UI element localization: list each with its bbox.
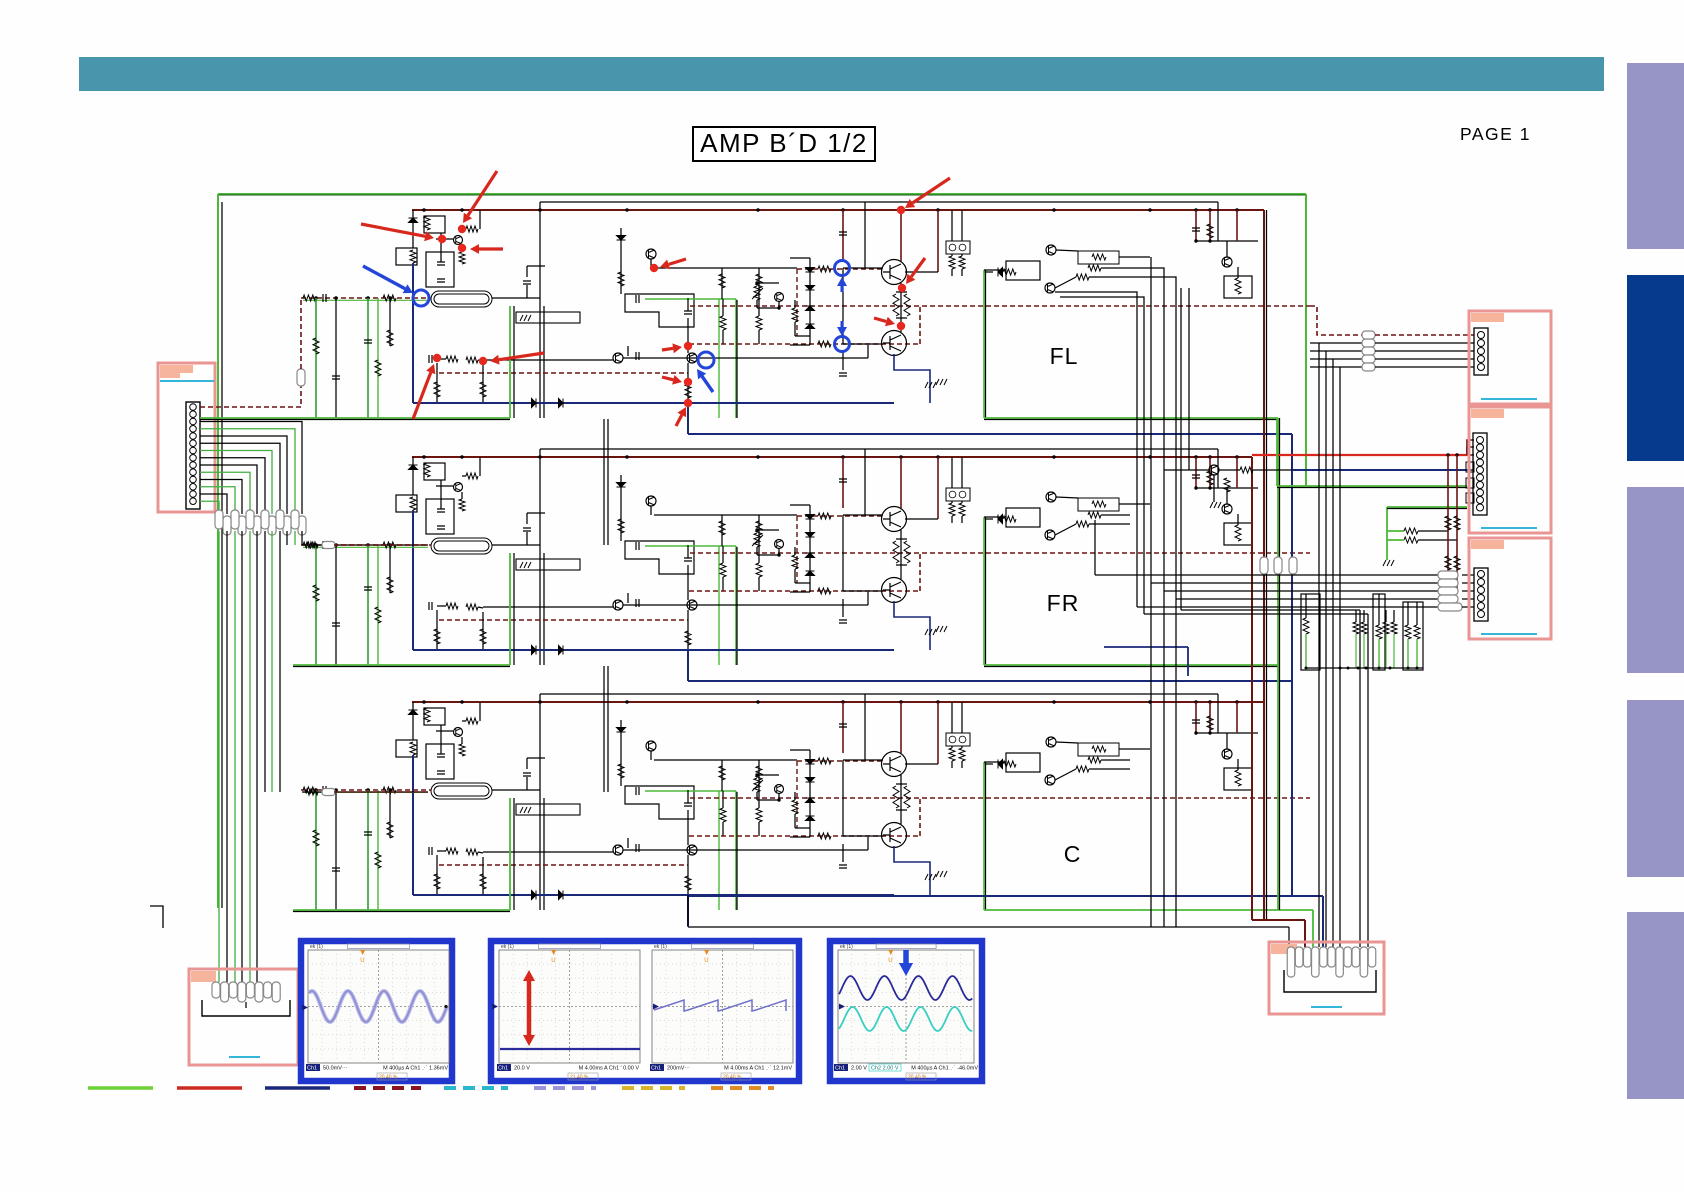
- shunt resistors mid: [1353, 622, 1359, 634]
- CN7 pin bead 4: [238, 982, 246, 1002]
- inter-channel vertical FL-FR: [603, 419, 605, 545]
- CN3 pin 7: [1477, 482, 1484, 489]
- C green right: [984, 909, 1313, 911]
- svg-text:M 4.00ms A Ch1 ′ 0.00 V: M 4.00ms A Ch1 ′ 0.00 V: [579, 1066, 640, 1072]
- CN3 pin 6: [1477, 474, 1484, 481]
- legend orange dashed wire: [711, 1086, 774, 1090]
- svg-text:M 400µs A Ch1 ⋰ -46.0mV: M 400µs A Ch1 ⋰ -46.0mV: [911, 1066, 978, 1072]
- bead navy: [1289, 557, 1297, 574]
- CN7 bracket: [202, 1000, 290, 1016]
- legend mustard dashed wire: [622, 1086, 685, 1090]
- CN7 pin bead 8: [272, 982, 280, 1002]
- CN1 pin10 wire: [200, 472, 250, 514]
- scope4 ch1 sine: [839, 976, 972, 1000]
- wire maroon bottom: [1252, 919, 1305, 921]
- wire maroon main vertical: [1263, 210, 1265, 920]
- CN2 pin strip: [1474, 328, 1488, 375]
- connector CN8 box bottom-right (pink): [1269, 942, 1384, 1014]
- CN1 pin6 wire: [200, 443, 280, 514]
- svg-text:20.40 %: 20.40 %: [908, 1075, 927, 1081]
- scope3 trigger marker: [653, 1004, 659, 1010]
- CN7 header fill: [191, 971, 216, 982]
- ferrite bead pin3: [298, 516, 306, 535]
- wire green border left: [217, 194, 219, 908]
- bundle verticals extra: [1359, 610, 1361, 947]
- scope4 screen grid: [838, 950, 974, 1063]
- dashed to CN2: [1310, 306, 1362, 335]
- bead maroon: [1260, 557, 1268, 574]
- CN3 pin strip: [1473, 433, 1487, 515]
- shunt box 1: [1301, 594, 1320, 670]
- scope1 readout: [306, 1064, 320, 1071]
- sidebar tab 3: [1627, 487, 1684, 673]
- ferrite bead pin5: [283, 516, 291, 535]
- C bus tail: [1240, 701, 1264, 703]
- CN2 pin 4: [1478, 356, 1485, 363]
- note blue circle 4: [835, 337, 850, 352]
- bead CN4 4: [1438, 595, 1458, 603]
- note red arrow 8: [662, 348, 673, 350]
- CN7 pin bead 6: [255, 982, 263, 1002]
- CN1 pin2 green wire: [200, 417, 293, 419]
- CN3 pin 3: [1477, 452, 1484, 459]
- shunt box 2: [1373, 594, 1385, 670]
- note red arrow 7: [874, 318, 886, 322]
- note red arrow 2: [361, 224, 425, 236]
- svg-text:FL: FL: [1050, 343, 1079, 369]
- svg-text:50.0mV⋯: 50.0mV⋯: [323, 1066, 348, 1072]
- ferrite bead pin12: [231, 510, 239, 529]
- svg-text:M 400µs A Ch1 ⋰ 1.36mV: M 400µs A Ch1 ⋰ 1.36mV: [383, 1066, 448, 1072]
- svg-text:U: U: [551, 958, 555, 964]
- svg-text:ek (1): ek (1): [501, 944, 514, 950]
- CN4 pin 6: [1478, 611, 1485, 618]
- sidebar tab 4: [1627, 700, 1684, 877]
- maroon drop resistors: [1447, 455, 1449, 583]
- ferrite bead pin13: [223, 516, 231, 535]
- note red arrow 4: [669, 259, 686, 264]
- CN8 cyan mark: [1311, 1006, 1342, 1008]
- CN8 pin bead 6: [1328, 947, 1336, 967]
- CN4 pin 2: [1478, 579, 1485, 586]
- CN8 header fill: [1271, 944, 1297, 954]
- wire navy to CN3: [1292, 469, 1467, 471]
- svg-text:U: U: [888, 958, 892, 964]
- note blue arrow down: [841, 321, 844, 327]
- bead CN4 3: [1438, 587, 1458, 595]
- CN1 pin 9: [190, 462, 197, 469]
- svg-text:FR: FR: [1047, 590, 1080, 616]
- channel C circuit: [301, 694, 1310, 926]
- CN8 pin bead 11: [1368, 947, 1376, 967]
- bundle vertical 1: [1150, 257, 1152, 927]
- note red arrow 3: [479, 247, 503, 250]
- CN7 pin bead 3: [229, 982, 237, 998]
- legend purple dashed wire: [534, 1086, 596, 1090]
- note red dots: [458, 225, 466, 233]
- svg-text:C: C: [1064, 841, 1081, 867]
- CN1 pin7 wire: [200, 451, 272, 515]
- bundle vertical 7: [1094, 520, 1096, 575]
- CN1 pin 10: [190, 469, 197, 476]
- scope2 readout: [497, 1064, 511, 1071]
- wire CN2 line 4: [1310, 366, 1340, 368]
- wire to CN4 2: [1151, 582, 1438, 584]
- teal header bar: [79, 57, 1604, 91]
- CN7 pin bead 2: [221, 982, 229, 1002]
- svg-text:Ch2 2.00 V: Ch2 2.00 V: [871, 1066, 899, 1072]
- CN1 pin 1: [190, 404, 197, 411]
- CN8 bracket: [1284, 970, 1376, 992]
- connector CN2 box (pink): [1469, 311, 1551, 404]
- wire green main vertical: [1277, 418, 1279, 910]
- CN1 pin9 wire: [200, 465, 257, 514]
- CN3 pin 9: [1477, 497, 1484, 504]
- bundle vertical 5: [1060, 297, 1144, 614]
- bead green: [1274, 557, 1282, 574]
- sidebar tab 2 (active): [1627, 275, 1684, 461]
- CN1 pin 3: [190, 418, 197, 425]
- bead CN4 2: [1438, 579, 1458, 587]
- scope1 sine waveform: [309, 991, 447, 1022]
- bead CN2 2: [1362, 347, 1375, 355]
- svg-text:Ch1: Ch1: [651, 1066, 661, 1072]
- scope4 trigger marker: [839, 1004, 845, 1010]
- note red arrow 11: [676, 415, 682, 426]
- wire to CN4 4: [1176, 598, 1438, 600]
- FR navy return: [688, 680, 1292, 682]
- note blue circle 3: [835, 261, 850, 276]
- bead CN4 5: [1438, 603, 1462, 611]
- CN1 pin8 wire: [200, 458, 265, 514]
- FR green right: [984, 664, 1279, 666]
- CN4 header fill: [1471, 540, 1504, 549]
- wire black border left: [221, 202, 223, 908]
- scope1 trigger markers: [302, 1005, 308, 1011]
- sidebar tab 5: [1627, 912, 1684, 1099]
- inter-channel vertical FR-C: [603, 666, 605, 792]
- wire green to CN3: [1277, 485, 1467, 487]
- CN3 pin 2: [1477, 444, 1484, 451]
- CN1 pin 6: [190, 440, 197, 447]
- scope4 ch2 sine: [839, 1007, 972, 1031]
- connector CN1 box (pink): [158, 363, 215, 512]
- CN1 pin12 wire: [200, 487, 235, 514]
- oscilloscope panel 2-3 frame: [491, 941, 799, 1081]
- legend maroon dashed wire: [354, 1086, 421, 1090]
- wire maroon FR vertical: [1251, 457, 1253, 920]
- svg-text:200mV⋯: 200mV⋯: [667, 1066, 690, 1072]
- scope2 red measure arrow: [527, 981, 532, 1010]
- CN1 pin 8: [190, 455, 197, 462]
- shunt box 3: [1403, 602, 1423, 670]
- CN8 pin bead 4: [1312, 947, 1320, 977]
- CN3 cyan mark: [1481, 527, 1537, 529]
- FL bus tail: [1240, 209, 1264, 211]
- CN3 pin 1: [1477, 437, 1484, 444]
- corner bracket: [150, 906, 163, 928]
- ferrite bead pin7: [268, 516, 276, 535]
- bead CN2 1: [1362, 339, 1375, 347]
- bead CN4 1: [1438, 571, 1458, 579]
- FL green stadium vertical: [509, 306, 511, 418]
- note blue arrow 1: [363, 266, 405, 289]
- wire green border top: [218, 193, 1306, 195]
- legend cyan dashed wire: [444, 1086, 508, 1090]
- C green return: [293, 909, 510, 911]
- C green stadium vertical: [509, 798, 511, 910]
- CN2 pin 2: [1478, 340, 1485, 347]
- svg-text:20.0 V: 20.0 V: [514, 1066, 530, 1072]
- wire CN2 line 1: [1310, 342, 1319, 344]
- CN1 pin 7: [190, 447, 197, 454]
- CN8 pin bead 3: [1303, 947, 1311, 967]
- CN3 pin 10: [1477, 504, 1484, 511]
- note blue circle 1: [413, 290, 429, 306]
- CN2 header fill: [1471, 313, 1504, 322]
- note blue circle 2: [698, 352, 714, 368]
- bead CN2 4: [1362, 363, 1375, 371]
- ground green: [1386, 540, 1388, 560]
- legend green wire: [88, 1086, 153, 1089]
- CN1 cyan mark: [160, 380, 214, 382]
- CN8 pin bead 10: [1360, 947, 1368, 977]
- CN8 pin bead 7: [1336, 947, 1344, 977]
- CN2 pin 1: [1478, 332, 1485, 339]
- note red arrow 5: [913, 178, 951, 203]
- CN8 pin bead 8: [1344, 947, 1352, 967]
- svg-text:U: U: [360, 958, 364, 964]
- svg-text:20.40 %: 20.40 %: [723, 1075, 742, 1081]
- ferrite bead pin11: [238, 516, 246, 535]
- ferrite bead pin6: [276, 510, 284, 529]
- CN1 pin1 dashed wire: [200, 386, 301, 407]
- FR green stadium vertical: [509, 553, 511, 665]
- CN1 pin 12: [190, 484, 197, 491]
- scope2 screen grid: [499, 950, 640, 1063]
- note blue arrow 2: [702, 376, 713, 392]
- CN3 pin 5: [1477, 467, 1484, 474]
- connector CN4 box (pink): [1469, 538, 1551, 639]
- svg-text:ek (1): ek (1): [840, 944, 853, 950]
- C navy return: [688, 895, 1323, 897]
- wire to CN4 1: [1095, 574, 1438, 576]
- channel FR circuit: [301, 449, 1310, 681]
- CN8 pin bead 1: [1287, 947, 1295, 977]
- note red arrow 9: [413, 372, 431, 419]
- CN1 pin13 wire: [200, 494, 227, 514]
- legend red wire: [177, 1086, 242, 1089]
- svg-text:Ch1: Ch1: [307, 1066, 317, 1072]
- ferrite bead pin4: [291, 510, 299, 529]
- note blue arrow up: [841, 286, 844, 292]
- note red arrow 10: [499, 353, 544, 360]
- svg-text:AMP B´D 1/2: AMP B´D 1/2: [700, 128, 868, 158]
- wire to CN4 3: [1164, 590, 1438, 592]
- CN1 pin11 wire: [200, 480, 242, 515]
- CN1 pin 4: [190, 426, 197, 433]
- oscilloscope panel 4 frame: [830, 941, 982, 1081]
- wire green2 to CN3: [1386, 507, 1388, 531]
- CN1 pin3 wire: [200, 422, 302, 515]
- CN2 cyan mark: [1481, 398, 1537, 400]
- bundle vertical 4: [1055, 292, 1137, 607]
- scope2 flat trace: [500, 1048, 640, 1050]
- svg-text:ek (1): ek (1): [654, 944, 667, 950]
- shunt green bottom rail: [1306, 667, 1423, 669]
- resistor pair net green: [1387, 530, 1404, 532]
- FL navy return: [688, 433, 1292, 435]
- scope4 blue arrow: [903, 950, 909, 963]
- C input wire: [302, 791, 428, 793]
- CN2 pin 3: [1478, 348, 1485, 355]
- C bottom black rail: [688, 926, 1289, 928]
- svg-text:2.00 V: 2.00 V: [851, 1066, 867, 1072]
- wire navy main vertical: [1291, 434, 1293, 896]
- bundle vertical 3: [1130, 277, 1176, 927]
- wire to CN4 5: [1137, 606, 1438, 608]
- CN1 pin5 wire: [200, 436, 287, 514]
- scope4 readout: [834, 1064, 848, 1071]
- CN7 pin bead 5: [246, 982, 254, 998]
- bead CN2 3: [1362, 355, 1375, 363]
- connector CN1 pin strip: [186, 402, 200, 509]
- svg-text:M 4.00ms A Ch1 ⋰ 12.1mV: M 4.00ms A Ch1 ⋰ 12.1mV: [724, 1066, 792, 1072]
- CN7 cyan mark: [229, 1056, 260, 1058]
- title box AMP B'D 1/2: [693, 127, 875, 161]
- CN1 pin 5: [190, 433, 197, 440]
- CN8 pin bead 5: [1320, 947, 1328, 967]
- scope3 screen grid: [652, 950, 793, 1063]
- scope3 saw waveform: [654, 1000, 786, 1011]
- wire red to CN3: [1252, 454, 1467, 456]
- CN3 jog boxes: [1466, 462, 1474, 472]
- wire CN2 line 3: [1310, 358, 1333, 360]
- svg-text:Ch1: Ch1: [835, 1066, 845, 1072]
- scope2 trigger marker: [492, 1004, 498, 1010]
- CN1 pin 2: [190, 411, 197, 418]
- sense transistor cluster: [1164, 469, 1209, 471]
- note red arrow 12: [662, 377, 673, 380]
- CN7 pin bead 7: [264, 982, 272, 998]
- FR input dashed: [334, 544, 428, 546]
- ferrite bead pin8: [261, 510, 269, 529]
- CN4 pin 3: [1478, 587, 1485, 594]
- sidebar tab 1: [1627, 63, 1684, 249]
- bundle vertical 2: [1130, 268, 1164, 927]
- CN3 pin 4: [1477, 459, 1484, 466]
- CN8 pin bead 2: [1295, 947, 1303, 967]
- note red arrow 1: [468, 171, 497, 216]
- CN8 pin bead 9: [1352, 947, 1360, 967]
- CN1 pin 14: [190, 498, 197, 505]
- svg-text:PAGE 1: PAGE 1: [1460, 124, 1531, 144]
- ferrite bead pin14: [215, 510, 223, 529]
- FL green return: [293, 417, 510, 419]
- FR bus tail: [1240, 456, 1252, 458]
- scope3 readout: [650, 1064, 664, 1071]
- CN2 pin 5: [1478, 364, 1485, 371]
- CN4 pin 4: [1478, 595, 1485, 602]
- CN4 pin 1: [1478, 571, 1485, 578]
- channel FL circuit: [301, 202, 1310, 434]
- scope1 screen grid: [308, 950, 449, 1063]
- CN3 header fill: [1471, 409, 1504, 418]
- svg-text:Ch1: Ch1: [498, 1066, 508, 1072]
- connector CN3 box (pink): [1469, 407, 1551, 533]
- wire CN2 line 2: [1310, 350, 1326, 352]
- FR green return: [293, 664, 510, 666]
- svg-text:20.40 %: 20.40 %: [379, 1075, 398, 1081]
- extra navy cross: [1104, 646, 1188, 648]
- svg-text:21.40 %: 21.40 %: [570, 1075, 589, 1081]
- connector CN7 box bottom-left (pink): [189, 969, 298, 1065]
- oscilloscope panel 1 frame: [301, 941, 452, 1081]
- FL green right: [984, 417, 1278, 419]
- CN4 pin 5: [1478, 603, 1485, 610]
- CN1 pin4 wire: [200, 429, 295, 514]
- ferrite bead pin10: [246, 510, 254, 529]
- CN4 pin strip: [1474, 568, 1488, 621]
- FR input wire: [302, 544, 428, 546]
- CN1 pin14 wire: [200, 501, 219, 514]
- CN4 cyan mark: [1481, 633, 1537, 635]
- svg-text:U: U: [704, 958, 708, 964]
- CN1 pin 11: [190, 476, 197, 483]
- CN1 pin 13: [190, 491, 197, 498]
- CN1 header fill: [160, 365, 193, 378]
- CN3 pin 8: [1477, 489, 1484, 496]
- legend navy wire: [265, 1086, 330, 1089]
- wire green border right: [1305, 194, 1307, 486]
- bundle vertical 6: [1188, 288, 1190, 470]
- svg-text:ek (1): ek (1): [310, 944, 323, 950]
- note red arrow 6: [911, 258, 925, 277]
- CN7 pin bead 1: [212, 982, 220, 998]
- ferrite bead pin9: [253, 516, 261, 535]
- C input dashed: [334, 791, 428, 793]
